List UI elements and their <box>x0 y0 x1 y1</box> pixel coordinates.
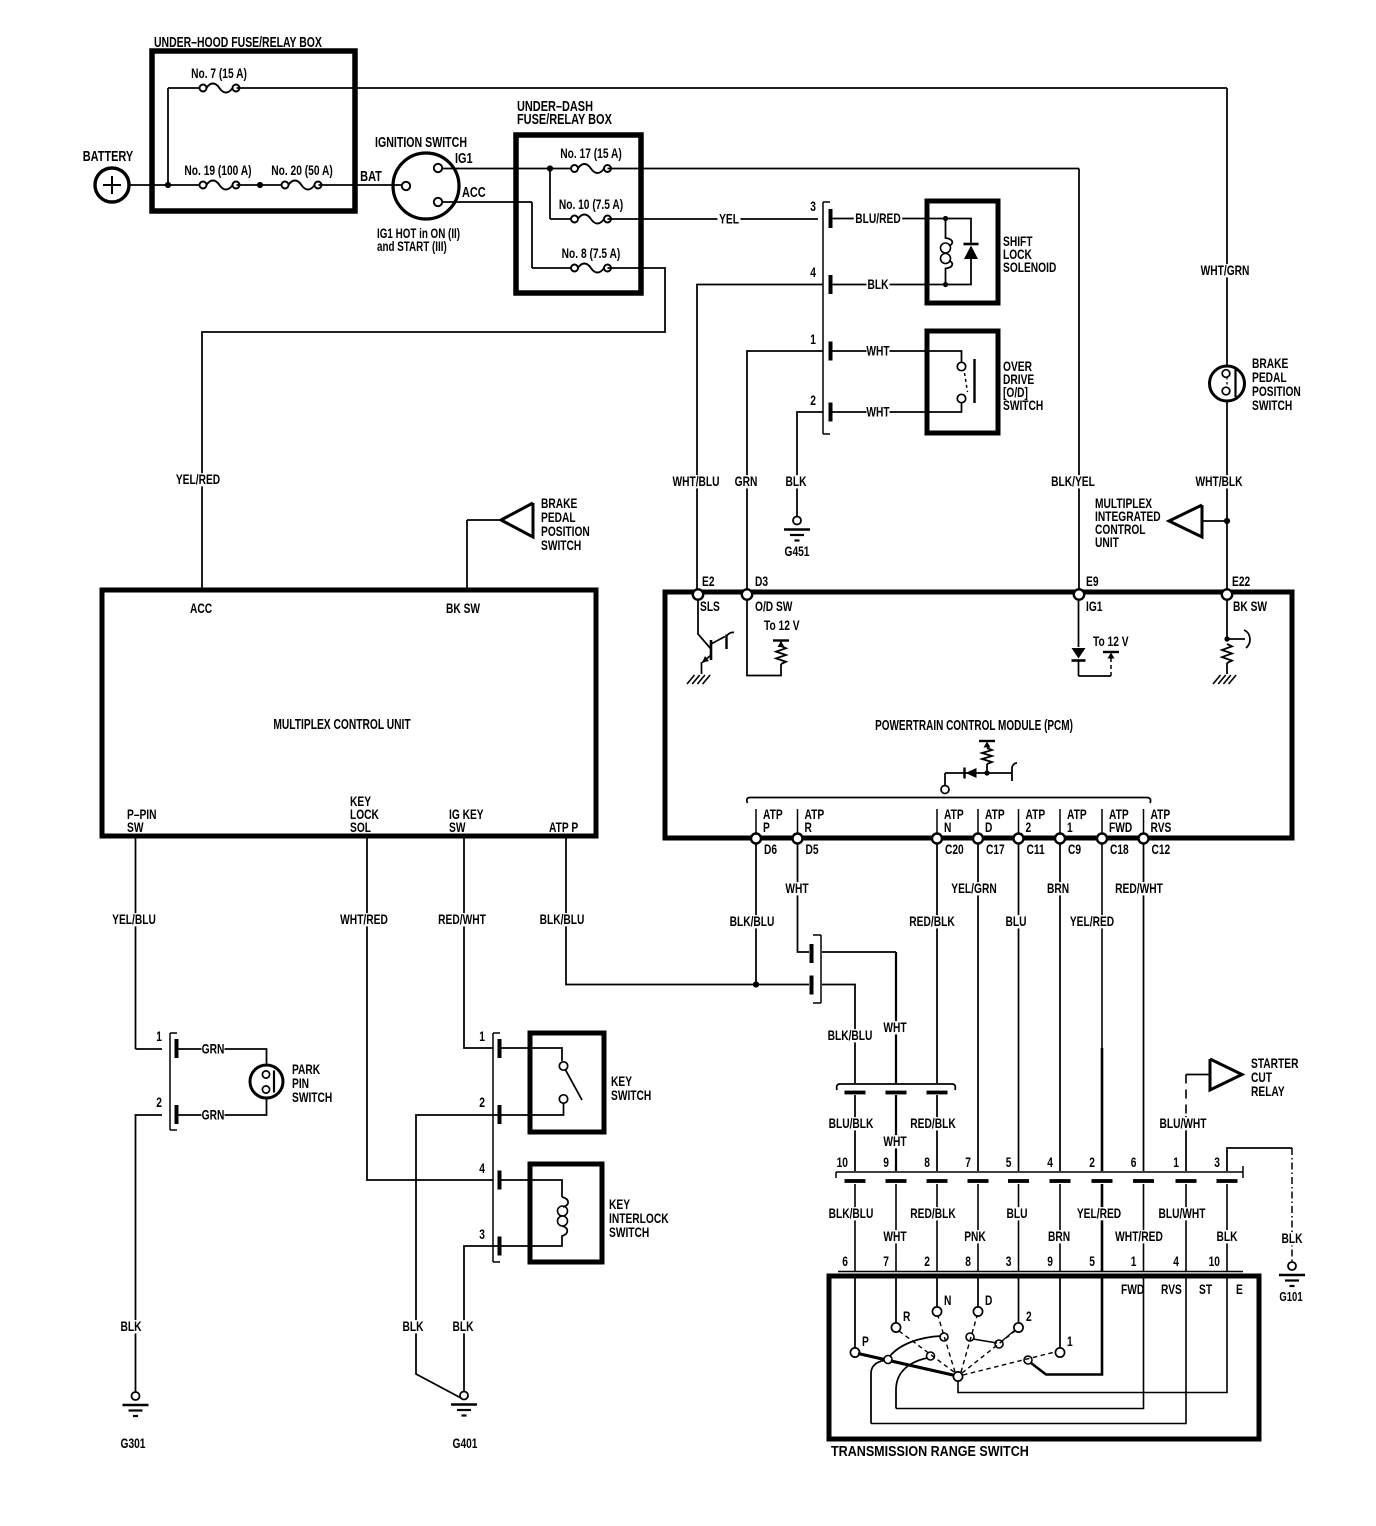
svg-text:C18: C18 <box>1110 841 1129 857</box>
wire pin1 to overdrive switch (WHT) and PCM D3 (GRN) <box>832 350 926 352</box>
overdrive switch contacts <box>926 351 962 362</box>
svg-text:1: 1 <box>810 331 816 347</box>
ATP common bracket over ATP pins <box>747 798 1151 804</box>
TRS contact 1 <box>1059 1278 1061 1348</box>
wire ACC to under-dash box <box>442 201 532 203</box>
svg-text:WHT: WHT <box>785 880 809 896</box>
node junction battery feed <box>165 182 171 188</box>
3-pin connector dashes <box>845 1091 866 1095</box>
svg-text:G451: G451 <box>785 543 810 559</box>
transmission range switch box <box>829 1276 1259 1439</box>
park pin connector pin 2 <box>175 1105 179 1124</box>
TRS contact D <box>977 1278 979 1307</box>
svg-text:BLU/BLK: BLU/BLK <box>829 1115 874 1131</box>
svg-text:C9: C9 <box>1068 841 1081 857</box>
svg-text:1: 1 <box>156 1028 162 1044</box>
wire WHT/GRN from fuse 7 down right side <box>1226 88 1228 366</box>
TRS dashed ray pivot to R <box>899 1331 954 1372</box>
svg-text:No. 20 (50 A): No. 20 (50 A) <box>271 162 332 178</box>
TRS RVS column from pin 1 <box>896 1274 1144 1409</box>
PCM internal BK SW pull-down resistor <box>1226 599 1228 639</box>
svg-text:BLK: BLK <box>402 1318 423 1334</box>
wire D5 down (WHT) <box>798 843 810 952</box>
wire fuse No.17 to PCM IG1 (BLK/YEL) <box>608 168 1080 170</box>
pin 3 <box>829 209 833 228</box>
svg-text:BAT: BAT <box>360 167 382 184</box>
PCM internal SLS driver transistor Q1 <box>698 599 711 649</box>
wire battery to under-hood fuse/relay box <box>129 184 199 186</box>
TRS inner contact c <box>940 1333 948 1341</box>
svg-text:FWD: FWD <box>1121 1281 1144 1297</box>
svg-text:IGNITION SWITCH: IGNITION SWITCH <box>375 133 467 150</box>
wire junction up to fuse No.7 <box>167 88 169 185</box>
svg-text:10: 10 <box>1209 1253 1221 1269</box>
svg-text:4: 4 <box>1173 1253 1179 1269</box>
svg-text:RED/WHT: RED/WHT <box>438 911 486 927</box>
TRS E column from pin 10 to pivot <box>958 1274 1227 1393</box>
wire main connector pin 3 up and over to ground G101 (BLK) <box>1227 1148 1292 1171</box>
svg-text:D: D <box>985 1292 993 1308</box>
svg-text:No. 17 (15 A): No. 17 (15 A) <box>560 145 621 161</box>
wire IG1 inside box <box>516 168 570 170</box>
svg-text:SWITCH: SWITCH <box>1003 397 1043 413</box>
PCM connector circle C12 <box>1139 834 1149 844</box>
svg-text:GRN: GRN <box>735 473 758 489</box>
key connector pin 3 <box>498 1237 502 1256</box>
svg-text:R: R <box>805 819 813 835</box>
svg-text:BK SW: BK SW <box>1233 598 1267 614</box>
svg-text:WHT/RED: WHT/RED <box>1115 1228 1163 1244</box>
wire P-PIN SW to park pin switch (YEL/BLU) <box>135 837 137 1049</box>
wire BK SW to multiplex control unit <box>466 520 468 589</box>
svg-text:E22: E22 <box>1232 573 1250 589</box>
PCM internal ATP pull-up resistor and diode <box>979 740 995 742</box>
svg-text:RELAY: RELAY <box>1251 1083 1285 1099</box>
TRS contact P <box>854 1278 856 1348</box>
PCM pin D5 (ATP R) stub and label <box>797 809 799 833</box>
PCM pin C11 (ATP 2) stub and label <box>1018 809 1020 833</box>
key switch connector body <box>492 1033 494 1262</box>
PCM connector circle E2 <box>693 589 703 599</box>
svg-text:RVS: RVS <box>1151 819 1172 835</box>
key interlock switch box <box>530 1164 602 1262</box>
svg-text:RED/BLK: RED/BLK <box>909 913 955 929</box>
key connector pin 2 <box>498 1105 502 1124</box>
svg-text:GRN: GRN <box>202 1041 225 1057</box>
main connector pin 9 <box>886 1179 907 1183</box>
svg-text:2: 2 <box>924 1253 930 1269</box>
svg-text:SWITCH: SWITCH <box>609 1224 649 1240</box>
PCM pin C9 (ATP 1) stub and label <box>1059 809 1061 833</box>
pin 4 <box>829 275 833 294</box>
svg-text:8: 8 <box>924 1154 930 1170</box>
node junction at multiplex ICU tap <box>1224 518 1230 524</box>
wire IG1 to under-dash box <box>442 168 516 170</box>
connector 3-pin bracket <box>837 1084 956 1090</box>
svg-text:ACC: ACC <box>462 183 486 200</box>
PCM connector circle C17 <box>973 834 983 844</box>
wire pin2 to overdrive switch (WHT) and ground G451 (BLK) <box>832 411 926 413</box>
TRS dashed ray pivot to 2 <box>962 1331 1015 1373</box>
powertrain control module (PCM) box <box>665 592 1292 838</box>
svg-text:BLK/BLU: BLK/BLU <box>829 1205 874 1221</box>
wire C11 down (BLU) <box>1018 843 1020 1171</box>
svg-text:BLU/RED: BLU/RED <box>855 210 901 226</box>
svg-text:BLK/BLU: BLK/BLU <box>828 1027 873 1043</box>
svg-text:WHT: WHT <box>866 343 890 359</box>
shift lock solenoid coil <box>926 218 946 220</box>
svg-text:2: 2 <box>1089 1154 1095 1170</box>
wire fuse No.8 to multiplex control unit ACC (YEL/RED) <box>202 268 665 589</box>
svg-text:SW: SW <box>127 819 144 835</box>
svg-text:D: D <box>985 819 993 835</box>
TRS FWD column from pin 5 <box>1031 1274 1102 1375</box>
svg-text:6: 6 <box>1131 1154 1137 1170</box>
TRS dashed ray pivot to 1 <box>963 1352 1055 1375</box>
svg-text:WHT/BLK: WHT/BLK <box>1195 473 1242 489</box>
svg-text:IG1: IG1 <box>1086 598 1103 614</box>
svg-text:2: 2 <box>479 1094 485 1110</box>
svg-text:O/D SW: O/D SW <box>755 598 793 614</box>
svg-text:R: R <box>903 1308 911 1324</box>
svg-text:N: N <box>944 1292 952 1308</box>
svg-text:1: 1 <box>1067 819 1073 835</box>
svg-text:G401: G401 <box>453 1435 478 1451</box>
TRS contact N <box>936 1278 938 1307</box>
svg-text:SLS: SLS <box>700 598 720 614</box>
svg-text:BRN: BRN <box>1048 1228 1070 1244</box>
svg-text:WHT/GRN: WHT/GRN <box>1201 262 1250 278</box>
svg-text:YEL/RED: YEL/RED <box>1077 1205 1121 1221</box>
wire key switch pin2 to ground G401 (BLK) <box>416 1115 501 1398</box>
TRS wiper thick line P to pivot <box>858 1354 955 1376</box>
svg-text:PNK: PNK <box>964 1228 986 1244</box>
shift lock solenoid box <box>927 201 998 303</box>
svg-text:GRN: GRN <box>202 1107 225 1123</box>
svg-text:3: 3 <box>810 198 816 214</box>
PCM connector circle C11 <box>1014 834 1024 844</box>
svg-text:7: 7 <box>883 1253 889 1269</box>
wire pin2 to park pin switch (GRN) <box>178 1099 267 1115</box>
key connector pin 4 <box>498 1171 502 1190</box>
svg-text:BLK: BLK <box>452 1318 473 1334</box>
under-dash fuse/relay box <box>516 135 641 293</box>
key connector pin 1 <box>498 1039 502 1058</box>
svg-text:C17: C17 <box>986 841 1005 857</box>
wire RED/BLK to main connector pin 8 <box>936 1095 938 1171</box>
park pin connector pin 1 <box>175 1039 179 1058</box>
PCM pin C12 (ATP RVS) stub and label <box>1143 809 1145 833</box>
svg-text:E9: E9 <box>1086 573 1099 589</box>
TRS inner contact d <box>966 1333 974 1341</box>
svg-text:BLU/WHT: BLU/WHT <box>1158 1205 1206 1221</box>
fuse No.20 (50 A) <box>288 181 314 190</box>
svg-text:SWITCH: SWITCH <box>292 1089 332 1105</box>
TRS connector strip <box>838 1271 1243 1273</box>
svg-text:BLK: BLK <box>1216 1228 1237 1244</box>
svg-text:E2: E2 <box>702 573 715 589</box>
overdrive switch box <box>927 331 998 433</box>
svg-text:SWITCH: SWITCH <box>1252 397 1292 413</box>
PCM connector circle D5 <box>793 834 803 844</box>
svg-text:YEL/GRN: YEL/GRN <box>951 880 997 896</box>
wire D6 down (BLK/BLU) <box>755 843 757 985</box>
PCM internal IG1 diode <box>1078 599 1080 647</box>
fuse No.19 (100 A) <box>206 181 232 190</box>
svg-text:YEL/RED: YEL/RED <box>1070 913 1114 929</box>
svg-text:BLK: BLK <box>785 473 806 489</box>
svg-text:3: 3 <box>1214 1154 1220 1170</box>
ground G401 <box>460 1392 468 1400</box>
svg-text:To 12 V: To 12 V <box>764 617 800 633</box>
TRS ST column from pin 4 <box>871 1274 1186 1424</box>
TRS inner contact e <box>995 1340 1003 1348</box>
wire pin4 to PCM E2 (BLK then WHT/BLU) <box>832 284 926 286</box>
park pin connector body <box>169 1033 171 1130</box>
svg-text:9: 9 <box>883 1154 889 1170</box>
svg-text:4: 4 <box>810 264 816 280</box>
PCM pin D6 (ATP P) stub and label <box>755 809 757 833</box>
svg-text:RVS: RVS <box>1161 1281 1182 1297</box>
svg-text:and START (III): and START (III) <box>377 238 447 254</box>
wire fuse No.7 to WHT/GRN vertical <box>237 87 1228 89</box>
pin 2 <box>829 403 833 422</box>
node junction BLK/BLU from multiplex ATP P <box>753 981 759 987</box>
svg-text:1: 1 <box>1067 1333 1073 1349</box>
wire to ATP common bracket <box>944 773 946 786</box>
ground hatch for SLS transistor <box>687 675 695 684</box>
battery <box>95 168 129 202</box>
inline connector lower pin <box>810 976 814 995</box>
svg-text:4: 4 <box>1047 1154 1053 1170</box>
wire pin2 to ground G301 (BLK) <box>136 1115 163 1392</box>
main connector pin 2 <box>1092 1179 1113 1183</box>
svg-text:BLK: BLK <box>120 1318 141 1334</box>
main connector pin 6 <box>1133 1179 1154 1183</box>
wire pin1 to park pin switch (GRN) <box>178 1049 267 1064</box>
svg-text:MULTIPLEX CONTROL UNIT: MULTIPLEX CONTROL UNIT <box>273 715 410 732</box>
wire C9 down (BRN) <box>1059 843 1061 1171</box>
wire IG KEY SW to key switch pin 1 (RED/WHT) <box>464 837 493 1048</box>
wires main connector to transmission range switch <box>854 1184 856 1271</box>
svg-text:BRN: BRN <box>1047 880 1069 896</box>
svg-text:SOLENOID: SOLENOID <box>1003 259 1056 275</box>
PCM connector circle D3 <box>742 589 752 599</box>
wire WHT after inline connector <box>822 951 896 953</box>
svg-text:WHT: WHT <box>883 1133 907 1149</box>
svg-text:FWD: FWD <box>1109 819 1132 835</box>
TRS dashed ray pivot to N <box>938 1316 955 1372</box>
wire fuse No.20 to BAT terminal <box>319 184 403 186</box>
ignition switch <box>393 153 459 219</box>
svg-text:WHT: WHT <box>883 1228 907 1244</box>
TRS inner contact b (RVS) <box>927 1352 935 1360</box>
svg-text:5: 5 <box>1006 1154 1012 1170</box>
key interlock coil <box>501 1180 562 1197</box>
PCM connector circle E9 <box>1074 589 1084 599</box>
svg-text:P: P <box>763 819 770 835</box>
brake pedal position switch (component) <box>1210 366 1245 401</box>
TRS contact 2 <box>1018 1278 1020 1323</box>
node junction between fuse 19 and 20 <box>257 182 263 188</box>
svg-text:No. 8 (7.5 A): No. 8 (7.5 A) <box>562 245 621 261</box>
main connector pin 10 <box>845 1179 866 1183</box>
starter cut relay triangle <box>1210 1059 1242 1090</box>
wire C20 down (RED/BLK) <box>936 843 938 1083</box>
svg-text:5: 5 <box>1089 1253 1095 1269</box>
PCM connector circle C20 <box>932 834 942 844</box>
PCM internal connector half pin <box>1011 767 1013 781</box>
svg-text:BLK/BLU: BLK/BLU <box>730 913 775 929</box>
svg-text:BLK: BLK <box>867 276 888 292</box>
pin 1 <box>829 342 833 361</box>
PCM pin C20 (ATP N) stub and label <box>936 809 938 833</box>
wire BLU/BLK to main connector pin 10 <box>854 1095 856 1171</box>
svg-text:BLK: BLK <box>1281 1230 1302 1246</box>
svg-text:2: 2 <box>1026 1308 1032 1324</box>
brake pedal position switch triangle (left) <box>467 519 501 521</box>
svg-text:2: 2 <box>810 392 816 408</box>
svg-text:YEL/RED: YEL/RED <box>176 471 220 487</box>
svg-text:BLU: BLU <box>1005 913 1026 929</box>
svg-text:RED/WHT: RED/WHT <box>1115 880 1163 896</box>
svg-text:FUSE/RELAY BOX: FUSE/RELAY BOX <box>517 110 612 127</box>
svg-text:To 12 V: To 12 V <box>1093 633 1129 649</box>
TRS inner contact f (FWD) <box>1024 1356 1032 1364</box>
svg-text:SW: SW <box>449 819 466 835</box>
svg-text:6: 6 <box>842 1253 848 1269</box>
svg-text:7: 7 <box>965 1154 971 1170</box>
main connector pin 5 <box>1008 1179 1029 1183</box>
svg-text:IG1: IG1 <box>455 149 473 166</box>
svg-text:E: E <box>1236 1281 1243 1297</box>
PCM pin C17 (ATP D) stub and label <box>977 809 979 833</box>
svg-text:No. 19 (100 A): No. 19 (100 A) <box>184 162 251 178</box>
PCM connector circle C18 <box>1097 834 1107 844</box>
svg-text:P: P <box>862 1333 869 1349</box>
svg-text:BLK/YEL: BLK/YEL <box>1051 473 1095 489</box>
wire ACC inside box to fuse No.8 <box>531 202 533 268</box>
svg-text:D3: D3 <box>755 573 768 589</box>
PCM internal O/D SW pull-up resistor <box>747 599 781 676</box>
PCM connector circle D6 <box>751 834 761 844</box>
main connector pin 3 <box>1217 1179 1238 1183</box>
svg-text:4: 4 <box>479 1160 485 1176</box>
under-hood fuse/relay box <box>152 51 355 211</box>
PCM connector circle E22 <box>1222 589 1232 599</box>
TRS dashed ray pivot to D <box>961 1316 977 1372</box>
key switch contacts <box>501 1048 562 1061</box>
svg-text:WHT: WHT <box>883 1019 907 1035</box>
svg-text:3: 3 <box>479 1226 485 1242</box>
wire C12 down (RED/WHT) <box>1143 843 1145 1171</box>
wire C17 down (YEL/GRN then PNK) <box>977 843 979 1171</box>
svg-text:1: 1 <box>1131 1253 1137 1269</box>
svg-text:ST: ST <box>1199 1281 1212 1297</box>
svg-text:G301: G301 <box>121 1435 146 1451</box>
svg-text:C20: C20 <box>945 841 964 857</box>
main connector pin 8 <box>927 1179 948 1183</box>
wire KEY LOCK SOL to key interlock pin 4 (WHT/RED) <box>367 837 493 1180</box>
svg-text:D5: D5 <box>806 841 819 857</box>
ground G301 <box>132 1392 140 1400</box>
fuse No.8 (7.5 A) <box>578 264 604 273</box>
svg-text:D6: D6 <box>764 841 777 857</box>
node junction IG1 feed <box>547 165 553 171</box>
svg-text:BLK/BLU: BLK/BLU <box>540 911 585 927</box>
inline connector 2-pin body <box>820 935 822 1003</box>
wire C18 down (YEL/RED) bold <box>1101 843 1103 1048</box>
wire pin3 to shift lock solenoid (BLU/RED) <box>832 218 926 220</box>
svg-text:RED/BLK: RED/BLK <box>910 1115 956 1131</box>
wire ATP P to PCM D6 junction (BLK/BLU) <box>566 837 809 985</box>
svg-text:C11: C11 <box>1027 841 1045 857</box>
wire key interlock pin3 to ground G401 (BLK) <box>464 1246 501 1391</box>
svg-text:3: 3 <box>1006 1253 1012 1269</box>
svg-text:No. 10 (7.5 A): No. 10 (7.5 A) <box>559 196 623 212</box>
wire WHT to main connector pin 9 <box>895 1095 897 1171</box>
wire BLK/BLU after inline connector <box>822 985 855 1084</box>
svg-text:WHT/RED: WHT/RED <box>340 911 388 927</box>
connector C pins 3/4/1/2 body <box>822 202 824 434</box>
main connector pin 7 <box>968 1179 989 1183</box>
fuse No.17 (15 A) <box>578 164 604 173</box>
wire WHT/BLK from BPP switch to PCM E22 <box>1226 401 1228 589</box>
svg-text:UNIT: UNIT <box>1095 534 1119 550</box>
fuse No.7 (15 A) <box>206 84 232 93</box>
multiplex integrated control unit triangle <box>1202 520 1224 522</box>
wire color labels above TRS <box>827 1207 875 1220</box>
svg-text:10: 10 <box>837 1154 849 1170</box>
svg-text:2: 2 <box>156 1094 162 1110</box>
svg-text:SWITCH: SWITCH <box>611 1087 651 1103</box>
TRS contact R <box>895 1278 897 1323</box>
svg-text:C12: C12 <box>1152 841 1171 857</box>
main connector pin 4 <box>1050 1179 1071 1183</box>
ground G101 <box>1288 1262 1296 1270</box>
svg-text:YEL: YEL <box>719 211 739 227</box>
svg-text:SWITCH: SWITCH <box>541 537 581 553</box>
svg-text:BATTERY: BATTERY <box>83 147 134 164</box>
svg-text:BK SW: BK SW <box>446 600 480 616</box>
TRS arc contact a to c <box>890 1336 941 1356</box>
key switch box <box>530 1033 604 1132</box>
svg-text:BLU: BLU <box>1006 1205 1027 1221</box>
svg-text:G101: G101 <box>1279 1291 1303 1305</box>
svg-text:TRANSMISSION RANGE SWITCH: TRANSMISSION RANGE SWITCH <box>831 1442 1029 1459</box>
svg-text:BLU/WHT: BLU/WHT <box>1159 1115 1207 1131</box>
svg-text:UNDER–HOOD FUSE/RELAY BOX: UNDER–HOOD FUSE/RELAY BOX <box>154 33 322 50</box>
fuse No.10 (7.5 A) <box>578 215 604 224</box>
TRS pivot contact <box>953 1372 962 1381</box>
svg-text:No. 7 (15 A): No. 7 (15 A) <box>191 65 247 81</box>
svg-text:SOL: SOL <box>350 819 371 835</box>
main inline connector bracket <box>836 1171 1243 1173</box>
inline connector upper pin <box>810 944 814 963</box>
svg-text:1: 1 <box>1173 1154 1179 1170</box>
svg-text:2: 2 <box>1026 819 1032 835</box>
PCM connector circle C9 <box>1055 834 1065 844</box>
svg-text:9: 9 <box>1047 1253 1053 1269</box>
svg-text:N: N <box>944 819 952 835</box>
wire starter cut relay to main connector pin 1 (BLU/WHT) <box>1185 1075 1187 1117</box>
wire fuse No.10 to connector pin 3 (YEL) <box>608 218 819 220</box>
svg-text:WHT: WHT <box>866 404 890 420</box>
TRS inner contact a (ST) <box>884 1356 892 1364</box>
svg-text:POWERTRAIN CONTROL MODULE (PCM: POWERTRAIN CONTROL MODULE (PCM) <box>875 716 1073 733</box>
wire YEL/BLU to pin 1 <box>136 1048 163 1050</box>
wire junction down to fuse No.10 <box>549 169 551 220</box>
